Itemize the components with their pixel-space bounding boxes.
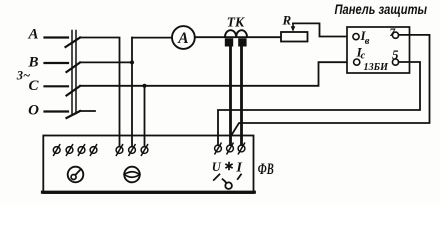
test board bottom thick edge <box>43 191 255 194</box>
meter dial marks <box>214 174 241 189</box>
label Iv <box>360 29 370 47</box>
switch blade C <box>67 86 81 96</box>
wire phase C long <box>80 62 354 86</box>
switch blade O <box>67 111 81 118</box>
svg-text:R: R <box>282 13 292 28</box>
node junction B <box>130 60 134 64</box>
current transformer TK primary loops <box>225 30 247 37</box>
svg-text:I: I <box>235 159 242 174</box>
switch blade A <box>66 38 81 48</box>
wire phase O stub <box>80 110 95 112</box>
terminal Is <box>354 59 360 65</box>
svg-text:U: U <box>212 160 222 174</box>
svg-text:ФВ: ФВ <box>258 161 274 178</box>
wire lead phase O <box>45 110 69 112</box>
wire B drop to board <box>131 38 133 147</box>
wire lead phase C <box>45 85 69 87</box>
wire R wiper to panel Iv <box>293 23 353 36</box>
svg-text:Панель защиты: Панель защиты <box>335 1 428 17</box>
terminal Iv <box>353 34 359 40</box>
node junction C <box>143 84 147 88</box>
wire ammeter to R <box>195 36 281 38</box>
svg-text:А: А <box>177 30 188 47</box>
svg-text:13БИ: 13БИ <box>364 61 389 73</box>
knob SA1 <box>68 167 84 183</box>
wire lead phase B <box>45 62 69 64</box>
terminal 7 <box>392 32 398 38</box>
wire lead phase A <box>45 36 69 38</box>
test board box FV <box>43 136 253 194</box>
svg-text:в: в <box>365 36 370 47</box>
label star <box>226 163 232 170</box>
rheostat R <box>281 32 308 42</box>
protection panel box <box>347 27 410 73</box>
wire C drop to board <box>144 86 146 147</box>
switch QS rails <box>72 31 76 114</box>
wire TK lead 2 <box>240 45 243 145</box>
svg-text:С: С <box>28 78 39 94</box>
svg-text:А: А <box>27 27 38 43</box>
terminal group middle <box>116 145 148 156</box>
terminal group left <box>53 145 97 156</box>
wire phase A to drop <box>80 38 120 147</box>
wire TK lead 1 <box>229 45 232 145</box>
terminal group right <box>215 143 245 154</box>
wire ammeter feed <box>132 37 172 39</box>
svg-text:ТК: ТК <box>227 14 245 29</box>
svg-text:В: В <box>27 55 38 71</box>
knob SA2 <box>124 167 140 183</box>
ammeter PA1 <box>172 26 195 49</box>
wire from terminal 5 <box>218 62 420 145</box>
svg-text:с: с <box>361 50 366 61</box>
terminal 5 <box>392 59 398 65</box>
svg-text:О: О <box>28 103 39 119</box>
switch blade B <box>67 63 81 73</box>
wire from terminal 7 <box>231 35 430 137</box>
current transformer TK secondary shoulders <box>225 38 247 46</box>
label Is <box>356 45 366 62</box>
rheostat R wiper arrow <box>291 23 296 31</box>
wire phase B to junction <box>80 61 132 63</box>
